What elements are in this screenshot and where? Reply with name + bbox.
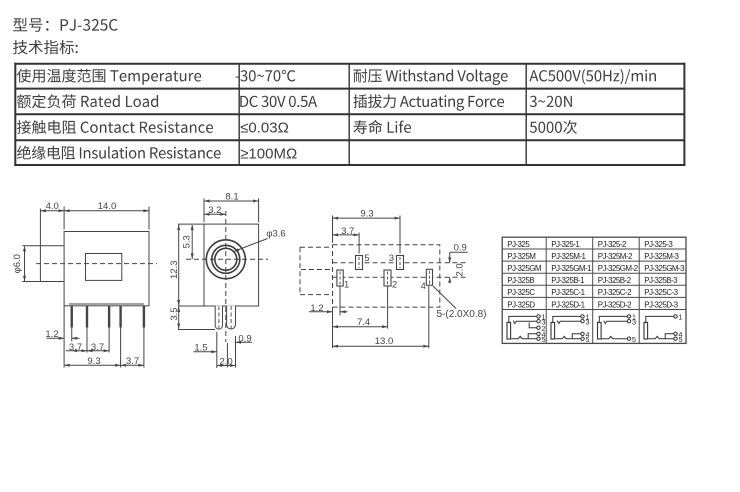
svg-text:PJ-325D-2: PJ-325D-2 <box>598 300 632 309</box>
svg-text:4: 4 <box>585 330 589 339</box>
svg-text:5: 5 <box>632 335 636 344</box>
svg-text:9.3: 9.3 <box>360 209 373 220</box>
svg-text:PJ-325C-3: PJ-325C-3 <box>644 288 678 297</box>
svg-text:7.4: 7.4 <box>357 317 370 328</box>
svg-text:12.3: 12.3 <box>169 260 180 279</box>
svg-text:PJ-325C-1: PJ-325C-1 <box>551 288 585 297</box>
svg-text:PJ-325GM-2: PJ-325GM-2 <box>598 264 639 273</box>
svg-text:PJ-325-1: PJ-325-1 <box>551 240 580 249</box>
svg-text:13.0: 13.0 <box>375 336 394 347</box>
svg-text:1.2: 1.2 <box>45 329 58 340</box>
svg-text:3.7: 3.7 <box>91 342 104 353</box>
svg-text:1.5: 1.5 <box>194 343 207 354</box>
svg-text:PJ-325D: PJ-325D <box>507 300 535 309</box>
svg-text:PJ-325GM-3: PJ-325GM-3 <box>644 264 685 273</box>
svg-text:1.2: 1.2 <box>310 303 323 314</box>
svg-text:φ3.6: φ3.6 <box>266 229 285 240</box>
svg-text:1: 1 <box>678 313 682 322</box>
svg-text:PJ-325: PJ-325 <box>507 240 530 249</box>
svg-text:PJ-325B: PJ-325B <box>507 276 534 285</box>
svg-text:≥100MΩ: ≥100MΩ <box>240 145 297 162</box>
svg-text:5: 5 <box>364 253 369 263</box>
svg-text:PJ-325GM: PJ-325GM <box>507 264 542 273</box>
svg-text:PJ-325C-2: PJ-325C-2 <box>598 288 632 297</box>
svg-text:3.7: 3.7 <box>69 342 82 353</box>
svg-text:4: 4 <box>541 330 545 339</box>
svg-text:3.7: 3.7 <box>126 356 139 367</box>
svg-text:PJ-325B-1: PJ-325B-1 <box>551 276 585 285</box>
svg-text:≤0.03Ω: ≤0.03Ω <box>240 120 289 137</box>
svg-text:2: 2 <box>392 279 397 289</box>
svg-text:PJ-325M-1: PJ-325M-1 <box>551 252 586 261</box>
svg-text:PJ-325M-3: PJ-325M-3 <box>644 252 679 261</box>
svg-text:2.0: 2.0 <box>454 263 465 276</box>
svg-text:4.0: 4.0 <box>46 201 59 212</box>
svg-text:3.2: 3.2 <box>208 205 221 216</box>
svg-text:PJ-325GM-1: PJ-325GM-1 <box>551 264 592 273</box>
svg-text:PJ-325M: PJ-325M <box>507 252 536 261</box>
svg-text:PJ-325-3: PJ-325-3 <box>644 240 673 249</box>
svg-text:PJ-325D-3: PJ-325D-3 <box>644 300 678 309</box>
svg-text:0.9: 0.9 <box>238 333 251 344</box>
svg-text:5.3: 5.3 <box>182 235 193 248</box>
svg-text:PJ-325C: PJ-325C <box>507 288 535 297</box>
svg-text:PJ-325B-3: PJ-325B-3 <box>644 276 678 285</box>
svg-text:PJ-325-2: PJ-325-2 <box>598 240 627 249</box>
svg-text:1: 1 <box>344 279 349 289</box>
svg-text:14.0: 14.0 <box>98 201 117 212</box>
svg-text:5-(2.0X0.8): 5-(2.0X0.8) <box>436 309 486 320</box>
svg-text:3: 3 <box>389 253 394 263</box>
svg-text:3: 3 <box>632 317 636 326</box>
svg-text:3: 3 <box>585 317 589 326</box>
svg-text:φ6.0: φ6.0 <box>12 254 23 273</box>
svg-text:0.9: 0.9 <box>454 242 467 253</box>
svg-text:4: 4 <box>678 330 682 339</box>
svg-text:4: 4 <box>421 281 426 291</box>
svg-text:9.3: 9.3 <box>87 356 100 367</box>
svg-text:3.5: 3.5 <box>169 307 180 320</box>
svg-text:2.0: 2.0 <box>219 357 232 368</box>
svg-text:PJ-325M-2: PJ-325M-2 <box>598 252 633 261</box>
svg-text:3.7: 3.7 <box>341 226 354 237</box>
svg-text:PJ-325D-1: PJ-325D-1 <box>551 300 585 309</box>
svg-text:PJ-325B-2: PJ-325B-2 <box>598 276 632 285</box>
svg-text:8.1: 8.1 <box>225 192 238 203</box>
